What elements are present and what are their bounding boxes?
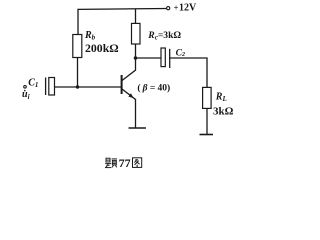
capacitor C1 [46,78,55,96]
resistor Rc 3k [132,23,141,44]
svg-text:(β=40): (β=40) [137,83,170,94]
wire RL bottom to ground [206,108,208,134]
transistor Q1 emitter arrowhead [128,93,133,98]
node A junction dot Rb/base [76,85,79,88]
svg-text:77: 77 [119,156,131,170]
wire C2 to RL branch [170,58,207,87]
wire collector node to C2 [136,57,162,59]
input terminal circle [24,86,27,89]
svg-text:+12V: +12V [174,2,197,13]
caption ti 77 tu [105,156,142,170]
transistor Q1 base bar [121,75,123,94]
caption character ti [105,158,117,167]
svg-text:3kΩ: 3kΩ [213,105,234,117]
resistor Rb 200k [73,35,82,58]
ground under emitter [129,127,147,129]
ground under RL [200,134,214,136]
caption character tu [133,158,142,168]
wire Rc bottom to collector node [135,44,137,58]
capacitor C2 [161,48,170,68]
svg-text:Rc=3kΩ: Rc=3kΩ [147,30,181,42]
svg-text:200kΩ: 200kΩ [85,41,119,55]
svg-text:Rb: Rb [84,30,96,42]
node B junction dot collector [134,56,138,60]
svg-text:RL: RL [215,91,227,103]
transistor Q1 collector lead [122,58,136,81]
svg-text:ui: ui [22,89,30,101]
wire base from C1 to transistor [55,86,122,88]
transistor Q1 emitter lead with arrow [122,89,136,128]
terminal +12V circle [167,7,170,10]
svg-text:C1: C1 [28,77,38,89]
resistor RL 3k [203,87,212,108]
wire Rc branch top drop from rail [135,9,137,24]
svg-text:C2: C2 [176,48,185,58]
wire top rail from Rb top corner to +12V terminal [78,9,166,35]
label ui input voltage [22,89,30,101]
wire Rb bottom to base node [77,58,79,88]
